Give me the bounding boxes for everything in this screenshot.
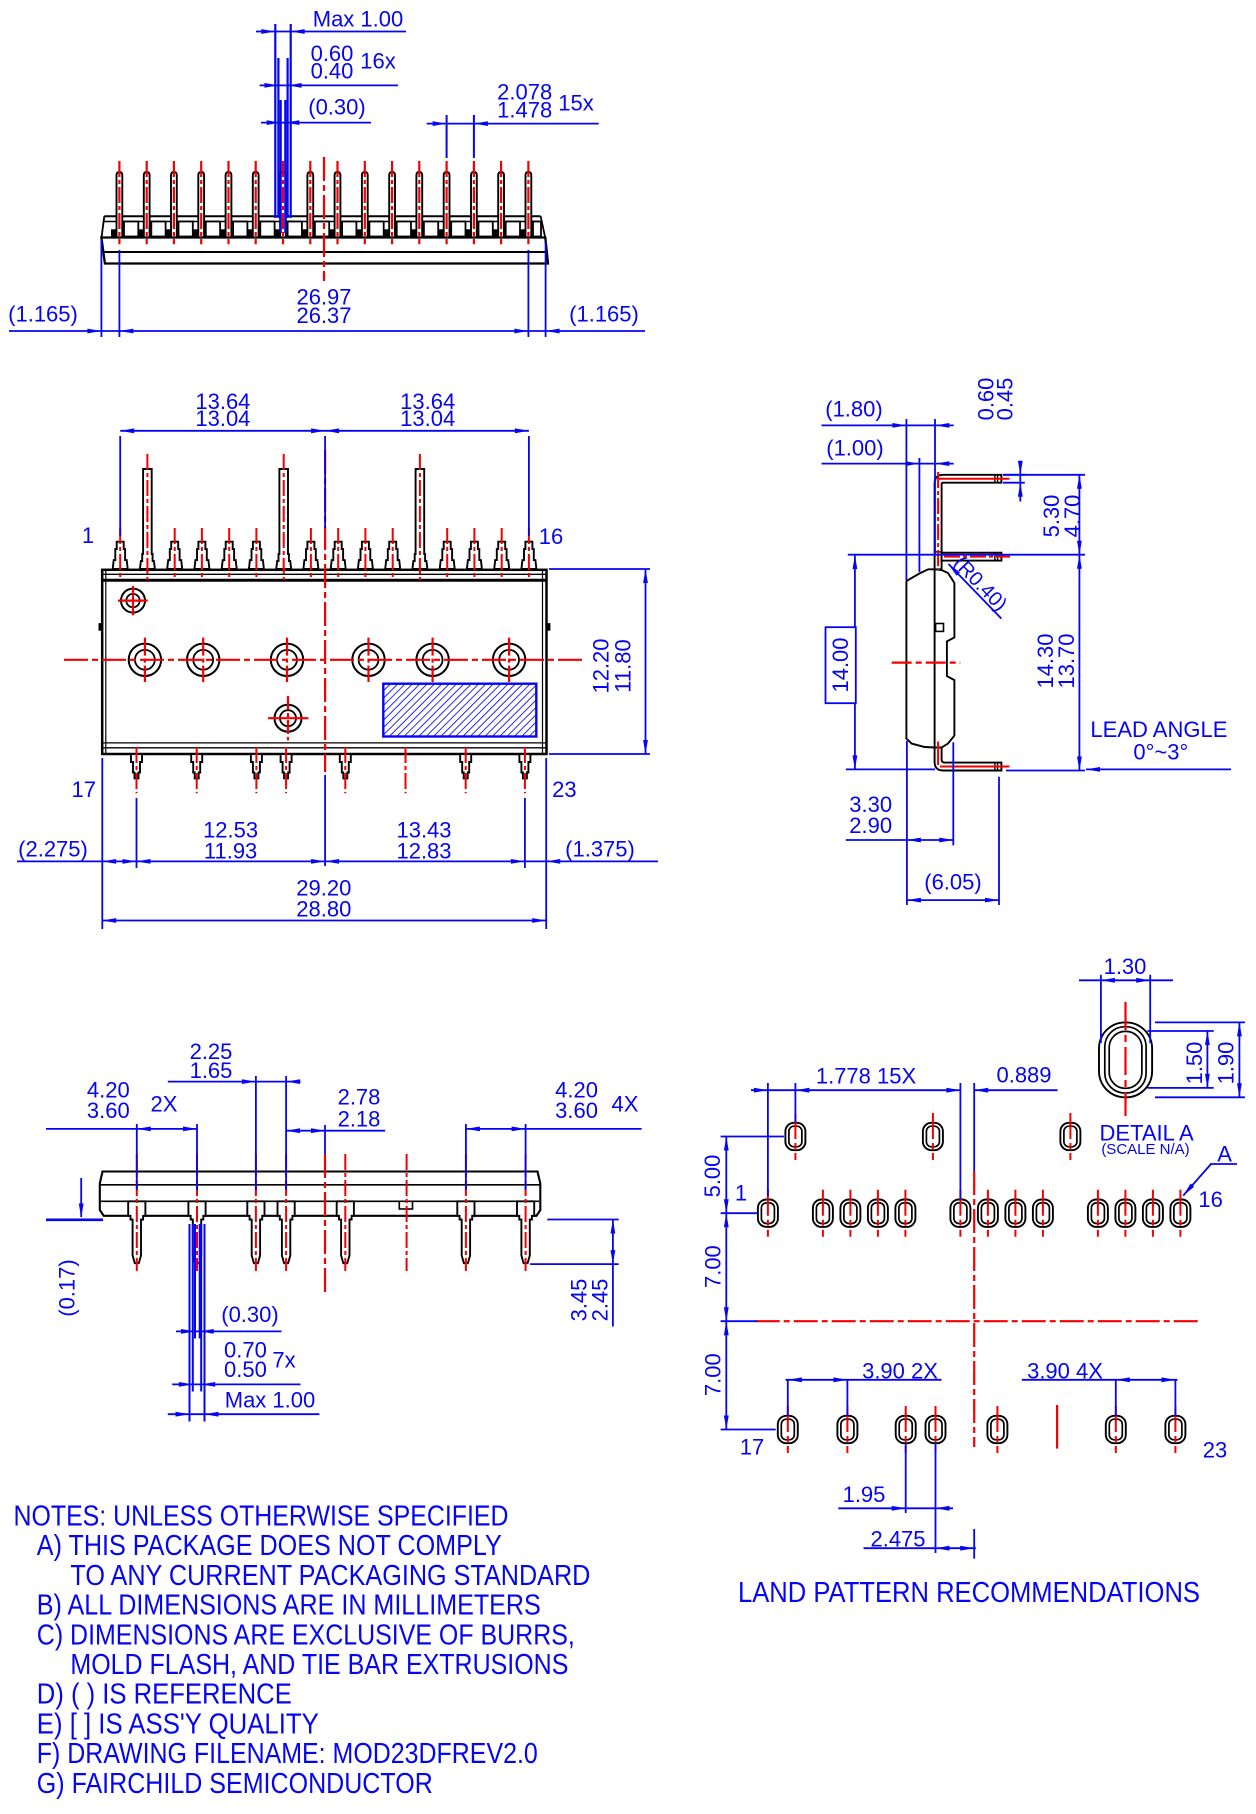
- svg-text:5.00: 5.00: [700, 1155, 725, 1198]
- svg-text:16x: 16x: [360, 49, 395, 74]
- svg-text:3.60: 3.60: [555, 1098, 598, 1123]
- svg-text:1.778 15X: 1.778 15X: [816, 1064, 917, 1089]
- svg-text:23: 23: [1203, 1438, 1227, 1463]
- svg-text:0°~3°: 0°~3°: [1133, 740, 1188, 765]
- svg-text:Max 1.00: Max 1.00: [313, 7, 404, 32]
- svg-text:11.80: 11.80: [611, 639, 636, 692]
- svg-text:LEAD ANGLE: LEAD ANGLE: [1090, 717, 1227, 742]
- svg-text:E) [ ] IS ASS'Y QUALITY: E) [ ] IS ASS'Y QUALITY: [37, 1708, 319, 1740]
- svg-text:4.70: 4.70: [1060, 495, 1085, 538]
- svg-text:1.478: 1.478: [497, 98, 552, 123]
- svg-text:28.80: 28.80: [296, 897, 351, 922]
- svg-text:F) DRAWING FILENAME: MOD23DFRE: F) DRAWING FILENAME: MOD23DFREV2.0: [37, 1738, 538, 1770]
- svg-text:7.00: 7.00: [701, 1353, 726, 1396]
- svg-text:NOTES: UNLESS OTHERWISE SPECIF: NOTES: UNLESS OTHERWISE SPECIFIED: [14, 1501, 509, 1533]
- svg-text:A) THIS PACKAGE DOES NOT COMPL: A) THIS PACKAGE DOES NOT COMPLY: [37, 1530, 502, 1562]
- svg-text:LAND PATTERN RECOMMENDATIONS: LAND PATTERN RECOMMENDATIONS: [738, 1577, 1200, 1609]
- svg-text:2.475: 2.475: [870, 1527, 925, 1552]
- svg-text:(1.00): (1.00): [826, 436, 883, 461]
- svg-text:G) FAIRCHILD SEMICONDUCTOR: G) FAIRCHILD SEMICONDUCTOR: [37, 1768, 433, 1800]
- svg-text:(0.30): (0.30): [308, 95, 365, 120]
- svg-text:2.45: 2.45: [588, 1279, 613, 1322]
- svg-text:23: 23: [552, 777, 576, 802]
- svg-text:15x: 15x: [558, 91, 593, 116]
- svg-text:3.90 4X: 3.90 4X: [1027, 1359, 1103, 1384]
- svg-text:12.83: 12.83: [396, 839, 451, 864]
- svg-text:13.04: 13.04: [400, 406, 455, 431]
- svg-text:14.00: 14.00: [828, 637, 853, 692]
- svg-text:7.00: 7.00: [701, 1245, 726, 1288]
- svg-text:0.889: 0.889: [996, 1063, 1051, 1088]
- svg-text:7x: 7x: [272, 1348, 295, 1373]
- svg-text:(6.05): (6.05): [924, 870, 981, 895]
- svg-text:13.70: 13.70: [1054, 633, 1079, 688]
- svg-text:(1.165): (1.165): [569, 302, 639, 327]
- svg-text:2X: 2X: [151, 1092, 178, 1117]
- svg-text:4X: 4X: [612, 1092, 639, 1117]
- svg-text:3.90 2X: 3.90 2X: [862, 1359, 938, 1384]
- svg-text:(SCALE N/A): (SCALE N/A): [1101, 1141, 1189, 1158]
- svg-text:1.90: 1.90: [1213, 1042, 1238, 1085]
- svg-text:B) ALL DIMENSIONS ARE IN MILLI: B) ALL DIMENSIONS ARE IN MILLIMETERS: [37, 1590, 541, 1622]
- svg-text:2.90: 2.90: [849, 813, 892, 838]
- svg-text:1.65: 1.65: [190, 1058, 233, 1083]
- svg-text:(2.275): (2.275): [18, 837, 88, 862]
- svg-text:MOLD FLASH, AND TIE BAR EXTRUS: MOLD FLASH, AND TIE BAR EXTRUSIONS: [70, 1649, 568, 1681]
- svg-text:(1.80): (1.80): [825, 397, 882, 422]
- svg-text:0.45: 0.45: [993, 378, 1018, 421]
- svg-text:1.95: 1.95: [843, 1482, 886, 1507]
- svg-text:0.40: 0.40: [311, 59, 354, 84]
- svg-text:C) DIMENSIONS ARE EXCLUSIVE OF: C) DIMENSIONS ARE EXCLUSIVE OF BURRS,: [37, 1619, 575, 1651]
- svg-text:16: 16: [1198, 1187, 1222, 1212]
- svg-text:16: 16: [539, 524, 563, 549]
- svg-text:1: 1: [735, 1181, 747, 1206]
- svg-text:1.30: 1.30: [1104, 954, 1147, 979]
- svg-text:0.50: 0.50: [224, 1357, 267, 1382]
- svg-text:(1.375): (1.375): [565, 837, 635, 862]
- svg-text:1: 1: [82, 523, 94, 548]
- svg-text:Max 1.00: Max 1.00: [225, 1388, 316, 1413]
- svg-text:A: A: [1217, 1142, 1232, 1167]
- svg-text:TO ANY CURRENT PACKAGING STAND: TO ANY CURRENT PACKAGING STANDARD: [70, 1560, 590, 1592]
- svg-text:(1.165): (1.165): [8, 302, 78, 327]
- svg-text:3.60: 3.60: [87, 1098, 130, 1123]
- svg-text:(0.30): (0.30): [221, 1302, 278, 1327]
- svg-text:11.93: 11.93: [204, 839, 257, 864]
- svg-text:26.37: 26.37: [296, 303, 351, 328]
- svg-text:(0.17): (0.17): [55, 1259, 80, 1316]
- svg-text:2.18: 2.18: [338, 1107, 381, 1132]
- svg-text:13.04: 13.04: [195, 406, 250, 431]
- svg-text:D) ( ) IS REFERENCE: D) ( ) IS REFERENCE: [37, 1679, 292, 1711]
- svg-text:1.50: 1.50: [1182, 1042, 1207, 1085]
- svg-text:17: 17: [740, 1435, 764, 1460]
- svg-text:17: 17: [71, 777, 95, 802]
